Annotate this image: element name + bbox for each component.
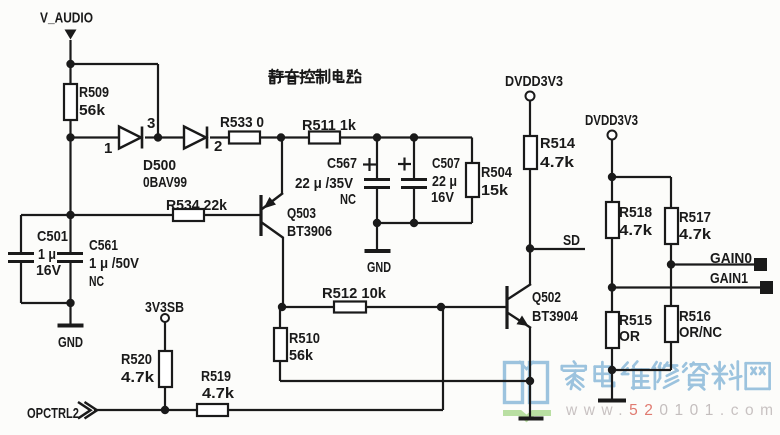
svg-text:56k: 56k (289, 347, 314, 364)
svg-text:0BAV99: 0BAV99 (143, 174, 187, 191)
svg-text:15k: 15k (481, 182, 509, 199)
svg-text:R518: R518 (619, 204, 652, 221)
svg-text:GAIN0: GAIN0 (710, 250, 752, 267)
svg-text:22 μ /35V: 22 μ /35V (295, 175, 353, 192)
svg-text:NC: NC (89, 273, 104, 290)
svg-text:R534 22k: R534 22k (166, 197, 228, 214)
svg-text:R520: R520 (121, 351, 152, 368)
svg-text:Q503: Q503 (287, 205, 316, 222)
svg-text:1: 1 (104, 140, 112, 157)
svg-text:OPCTRL2: OPCTRL2 (27, 405, 79, 422)
svg-text:C567: C567 (327, 155, 357, 172)
svg-text:4.7k: 4.7k (121, 369, 155, 386)
svg-text:GND: GND (58, 334, 83, 351)
svg-text:R511 1k: R511 1k (302, 117, 357, 134)
svg-text:V_AUDIO: V_AUDIO (40, 10, 93, 27)
svg-text:R510: R510 (289, 330, 320, 347)
svg-text:DVDD3V3: DVDD3V3 (505, 73, 563, 90)
svg-text:DVDD3V3: DVDD3V3 (585, 112, 638, 129)
svg-text:NC: NC (340, 191, 356, 208)
svg-text:16V: 16V (431, 189, 454, 206)
svg-text:3V3SB: 3V3SB (145, 299, 184, 316)
svg-text:4.7k: 4.7k (619, 222, 653, 239)
svg-text:Q502: Q502 (532, 289, 561, 306)
svg-text:OR/NC: OR/NC (679, 324, 722, 341)
svg-text:OR: OR (619, 328, 640, 345)
svg-text:C501: C501 (37, 228, 68, 245)
svg-text:C507: C507 (432, 155, 460, 172)
svg-text:2: 2 (214, 138, 222, 155)
svg-text:D500: D500 (143, 157, 176, 174)
svg-text:R515: R515 (619, 312, 652, 329)
svg-text:R504: R504 (481, 164, 513, 181)
svg-text:4.7k: 4.7k (679, 226, 712, 243)
svg-text:56k: 56k (79, 102, 106, 119)
svg-text:GAIN1: GAIN1 (710, 270, 748, 287)
svg-text:SD: SD (563, 232, 580, 249)
svg-text:R516: R516 (679, 308, 711, 325)
svg-text:R514: R514 (540, 135, 576, 152)
svg-text:GND: GND (367, 259, 391, 276)
svg-text:R512 10k: R512 10k (322, 285, 387, 302)
svg-text:3: 3 (147, 115, 155, 132)
svg-text:1 μ /50V: 1 μ /50V (89, 255, 139, 272)
svg-text:16V: 16V (36, 262, 61, 279)
svg-text:R509: R509 (79, 84, 109, 101)
svg-text:R517: R517 (679, 209, 711, 226)
svg-text:4.7k: 4.7k (540, 154, 575, 171)
svg-text:www.520101.com: www.520101.com (565, 402, 773, 419)
svg-text:22 μ: 22 μ (432, 173, 457, 190)
svg-text:4.7k: 4.7k (202, 385, 235, 402)
svg-text:R533 0: R533 0 (220, 114, 264, 131)
svg-text:BT3906: BT3906 (287, 223, 332, 240)
svg-text:R519: R519 (201, 368, 231, 385)
svg-text:1 μ: 1 μ (38, 246, 56, 263)
svg-text:C561: C561 (89, 237, 118, 254)
svg-text:BT3904: BT3904 (532, 308, 579, 325)
